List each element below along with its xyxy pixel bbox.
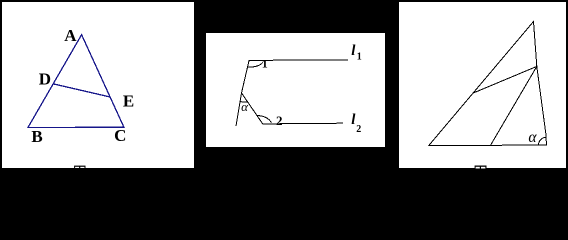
- svg-text:l: l: [351, 43, 356, 59]
- svg-text:C: C: [114, 126, 126, 145]
- svg-text:B: B: [31, 127, 42, 146]
- svg-text:A: A: [64, 26, 77, 45]
- svg-text:E: E: [123, 92, 134, 111]
- svg-text:D: D: [39, 70, 51, 89]
- svg-text:1: 1: [357, 52, 362, 63]
- svg-text:2: 2: [276, 113, 283, 128]
- svg-text:α: α: [528, 129, 537, 146]
- svg-text:α: α: [241, 99, 249, 114]
- svg-text:1: 1: [262, 56, 268, 70]
- svg-text:2: 2: [356, 124, 361, 135]
